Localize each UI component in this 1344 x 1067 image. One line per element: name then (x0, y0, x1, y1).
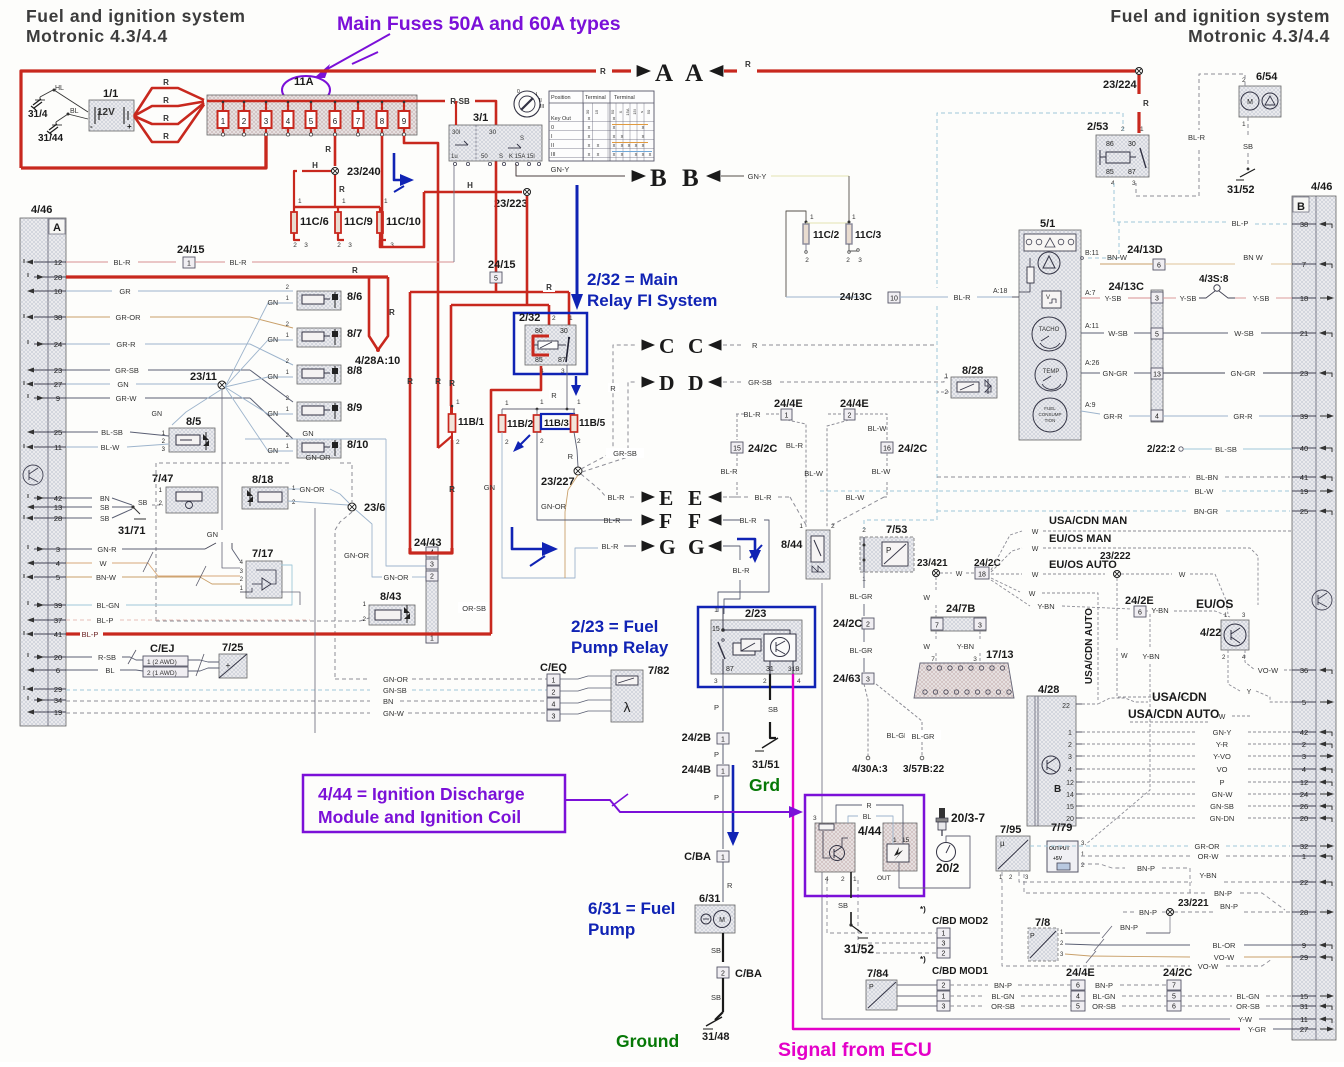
svg-text:19: 19 (1300, 487, 1308, 496)
svg-text:2/23 = Fuel: 2/23 = Fuel (571, 617, 658, 636)
wire fuse6 down to 23/240 (334, 136, 337, 166)
svg-text:20: 20 (1300, 814, 1308, 823)
pin 11 left strip (24, 443, 66, 452)
svg-text:1: 1 (552, 677, 556, 684)
svg-text:2: 2 (430, 573, 434, 580)
svg-text:BL-R: BL-R (739, 516, 757, 525)
svg-text:P: P (714, 703, 719, 712)
connector 24/4E pin1 (736, 398, 803, 420)
fuse bus bar (207, 100, 412, 103)
svg-text:1: 1 (456, 399, 460, 406)
svg-text:Ground: Ground (616, 1031, 679, 1051)
svg-text:20/2: 20/2 (936, 861, 960, 875)
wire BL-GN from pin39 (66, 565, 292, 610)
svg-text:24/13C: 24/13C (840, 292, 872, 303)
svg-text:BL-P: BL-P (97, 616, 114, 625)
svg-text:SB: SB (1243, 142, 1253, 151)
connector C/BA pin2 (717, 967, 762, 980)
svg-text:C: C (659, 334, 675, 358)
svg-text:1: 1 (298, 198, 302, 205)
svg-text:x: x (642, 125, 645, 131)
fuse 11B/1 top feed (450, 406, 452, 414)
svg-text:2: 2 (862, 527, 866, 534)
svg-text:USA/CDN AUTO: USA/CDN AUTO (1128, 707, 1219, 721)
svg-text:D: D (688, 371, 704, 395)
svg-text:1: 1 (221, 117, 226, 126)
svg-text:BL: BL (70, 108, 79, 115)
label OR-SB on red vertical (458, 602, 488, 613)
wire W from 23/222 to 4/22 (1121, 572, 1228, 614)
svg-text:GN: GN (152, 411, 163, 418)
pin 39 right strip (1292, 412, 1334, 421)
svg-text:OR-SB: OR-SB (991, 1002, 1015, 1011)
svg-text:0: 0 (517, 89, 520, 95)
switch contact inside 2/32 (566, 337, 570, 362)
wire GR-SB to 8/9 (66, 366, 293, 402)
svg-text:4/46: 4/46 (31, 204, 52, 216)
svg-text:1: 1 (577, 399, 581, 406)
wire GN from 23/11 to 8/5 (152, 389, 223, 425)
svg-text:30: 30 (560, 328, 568, 335)
svg-text:BL-R: BL-R (786, 441, 804, 450)
svg-text:2 (1 AWD): 2 (1 AWD) (147, 670, 177, 677)
svg-text:11C/9: 11C/9 (344, 216, 373, 228)
svg-text:31B: 31B (788, 666, 800, 673)
svg-text:Pump Relay: Pump Relay (571, 638, 669, 657)
svg-text:M: M (1247, 99, 1253, 106)
fuse 8 (377, 101, 388, 136)
connector 24/4E pin2 (828, 398, 887, 442)
pin 19 left strip (27, 708, 66, 717)
wire W fan down from 24/2C 18 (991, 578, 1098, 700)
svg-text:Y-VO: Y-VO (1213, 752, 1231, 761)
svg-text:BL-GR: BL-GR (912, 732, 936, 741)
wires 24/4E to 24/2C (1092, 981, 1167, 1011)
svg-text:87: 87 (1128, 169, 1136, 176)
wire W EU/OS AUTO (991, 559, 1117, 579)
pin A:9 wire GR-R (1081, 402, 1292, 421)
svg-text:22: 22 (1062, 703, 1070, 710)
svg-text:3: 3 (1155, 295, 1159, 302)
svg-text:2: 2 (552, 315, 556, 322)
svg-text:7: 7 (1172, 982, 1176, 989)
svg-text:3: 3 (56, 545, 60, 554)
svg-text:20/3-7: 20/3-7 (951, 811, 985, 825)
svg-text:R: R (163, 114, 169, 123)
spark plug 20/3-7 (936, 808, 985, 836)
svg-text:23: 23 (54, 366, 62, 375)
svg-text:BL-R: BL-R (229, 258, 247, 267)
svg-text:TEMP: TEMP (1043, 369, 1060, 375)
throttle module 7/17 (240, 548, 282, 598)
pin 5 left strip (24, 573, 66, 582)
svg-text:1: 1 (342, 198, 346, 205)
svg-text:1: 1 (1140, 126, 1144, 133)
svg-text:2: 2 (846, 257, 850, 264)
svg-text:2: 2 (540, 438, 544, 445)
svg-text:BN W: BN W (1243, 253, 1264, 262)
battery feed red fan with R labels (134, 78, 204, 142)
svg-text:H: H (467, 181, 473, 190)
svg-text:P: P (886, 546, 891, 555)
svg-text:x: x (597, 152, 600, 158)
svg-text:13: 13 (1153, 371, 1161, 378)
svg-text:W: W (1032, 572, 1039, 579)
svg-text:2: 2 (942, 982, 946, 989)
wire GR to 8/6 (66, 287, 293, 296)
svg-text:*): *) (920, 905, 926, 914)
svg-text:8/6: 8/6 (347, 291, 362, 303)
svg-text:GN: GN (484, 483, 495, 492)
switch BL to ground 31/44 (38, 108, 88, 144)
wire BL-GR dashed from 17/13 down to 3/57B:22 (876, 684, 945, 775)
svg-text:8/8: 8/8 (347, 365, 362, 377)
wire BN-W from pin5 (66, 566, 240, 586)
svg-text:2: 2 (1068, 742, 1072, 749)
component 11C/2 (803, 214, 848, 264)
svg-text:R: R (449, 485, 455, 494)
svg-text:30: 30 (489, 129, 497, 136)
red U feed of 24/43 (410, 548, 452, 553)
svg-text:GR-OR: GR-OR (116, 313, 142, 322)
pin 22 right strip (1292, 878, 1332, 887)
svg-text:GN-OR: GN-OR (383, 675, 409, 684)
connector 24/63 pin3 (833, 673, 874, 685)
svg-text:1: 1 (1068, 730, 1072, 737)
svg-text:9: 9 (1302, 941, 1306, 950)
svg-text:GN-Y: GN-Y (748, 172, 767, 181)
svg-text:42: 42 (54, 494, 62, 503)
svg-text:III: III (551, 152, 556, 158)
svg-text:BL-OR: BL-OR (1213, 941, 1237, 950)
svg-text:3: 3 (978, 622, 982, 629)
wire BL-W to 8/5 (66, 443, 169, 452)
svg-text:R: R (546, 283, 552, 292)
svg-text:BL-GN: BL-GN (1093, 992, 1116, 1001)
node 23/223 (494, 189, 531, 211)
svg-text:R: R (163, 132, 169, 141)
wire VO-W dashed row lower (1002, 872, 1272, 971)
svg-text:29: 29 (54, 685, 62, 694)
svg-text:G: G (659, 535, 676, 559)
svg-text:B: B (1297, 201, 1305, 213)
svg-text:11: 11 (54, 443, 62, 452)
svg-text:A:18: A:18 (993, 288, 1008, 295)
wire BN-P from 7/8 pin1 (1065, 923, 1170, 938)
fuse 5 (306, 101, 317, 136)
svg-text:P: P (714, 793, 719, 802)
blue arrow top near fuse box (394, 153, 414, 192)
svg-text:R-SB: R-SB (98, 653, 116, 662)
svg-text:W: W (1219, 714, 1226, 721)
arrow pair G (642, 535, 722, 559)
svg-text:BL-R: BL-R (953, 293, 971, 302)
svg-text:OR-W: OR-W (1198, 852, 1220, 861)
relay 8/18 (242, 474, 296, 509)
svg-text:Fuel and ignition system: Fuel and ignition system (1110, 6, 1330, 26)
wire GR-SB dashed right of D (723, 378, 949, 387)
svg-text:11B/3: 11B/3 (544, 418, 569, 429)
wire GN bus down from injectors (245, 429, 426, 566)
svg-text:Y-SB: Y-SB (1253, 294, 1270, 303)
svg-text:31/52: 31/52 (844, 942, 874, 956)
component 11C/9 with pins 1 2 3 (335, 198, 373, 249)
svg-text:6: 6 (1076, 982, 1080, 989)
ECU pin 1 wire GN-Y to pin 42 (1068, 728, 1290, 737)
svg-text:BN-P: BN-P (1139, 908, 1157, 917)
svg-text:6: 6 (1172, 1003, 1176, 1010)
svg-text:4: 4 (1302, 765, 1306, 774)
pin 28 left strip (24, 514, 66, 523)
annotation 6/31 Fuel Pump (588, 899, 675, 939)
ignition switch 3/1 (449, 112, 542, 166)
svg-text:Y-BN: Y-BN (1142, 652, 1159, 661)
wire frame bottom from battery loop (21, 134, 266, 168)
svg-text:2: 2 (721, 970, 725, 977)
svg-text:8/5: 8/5 (186, 416, 201, 428)
svg-text:24/2C: 24/2C (898, 443, 927, 455)
wire dashed from 23/227 to C and D (581, 345, 644, 472)
svg-text:GN-OR: GN-OR (541, 502, 567, 511)
svg-text:BL-R: BL-R (607, 493, 625, 502)
svg-text:12: 12 (1300, 778, 1308, 787)
wire P from 2/23 pin3 down fuel pump feed (714, 674, 723, 731)
arrow pair D (642, 371, 722, 395)
svg-text:7/82: 7/82 (648, 665, 669, 677)
svg-text:E: E (659, 486, 673, 510)
fuse 6 (330, 101, 341, 136)
svg-text:R: R (163, 96, 169, 105)
ECU pin 4 wire VO to pin 4 (1068, 765, 1290, 774)
svg-text:31/44: 31/44 (38, 133, 63, 144)
svg-text:G: G (688, 535, 705, 559)
svg-text:37: 37 (54, 616, 62, 625)
svg-text:BL-R: BL-R (113, 258, 131, 267)
connector strip 4/46 B (1292, 181, 1336, 1040)
svg-text:23/6: 23/6 (364, 502, 385, 514)
svg-text:A:9: A:9 (1085, 402, 1096, 409)
svg-text:10: 10 (54, 287, 62, 296)
ECU 4/28 part B (1027, 684, 1076, 826)
svg-text:8/7: 8/7 (347, 328, 362, 340)
svg-text:BL-R: BL-R (732, 566, 750, 575)
svg-text:λ: λ (624, 699, 631, 715)
svg-text:31/51: 31/51 (752, 759, 780, 771)
transistor symbol on left strip (23, 465, 43, 485)
svg-text:4/44: 4/44 (858, 824, 882, 838)
wire BL-P red to pin 41 (66, 630, 491, 639)
svg-text:1: 1 (721, 854, 725, 861)
svg-text:7/84: 7/84 (867, 968, 889, 980)
svg-text:BN-P: BN-P (1214, 889, 1232, 898)
node 23/11 (190, 371, 226, 389)
svg-text:II: II (551, 143, 555, 149)
svg-text:22: 22 (1300, 878, 1308, 887)
svg-text:2/53: 2/53 (1087, 121, 1108, 133)
svg-text:3: 3 (942, 940, 946, 947)
purple arrow to 4/44 (565, 794, 803, 818)
svg-text:1: 1 (944, 373, 948, 380)
svg-text:W: W (1032, 546, 1039, 553)
wire dashed from 23/227 to E (581, 474, 636, 502)
svg-text:38: 38 (1300, 220, 1308, 229)
injector 8/7 (297, 328, 362, 347)
svg-text:28: 28 (1300, 908, 1308, 917)
svg-text:24/4E: 24/4E (840, 398, 869, 410)
svg-text:SB: SB (100, 516, 110, 523)
wire OR-W row to pin 1 (1081, 852, 1290, 861)
injector 8/6 (297, 291, 362, 310)
svg-text:5: 5 (1076, 1003, 1080, 1010)
svg-text:GN: GN (302, 429, 313, 438)
svg-text:6: 6 (333, 117, 338, 126)
pin 18 right strip (1292, 294, 1334, 303)
pin 23 left strip (27, 366, 66, 375)
component 6/54 horn (1239, 71, 1281, 128)
svg-text:3: 3 (552, 713, 556, 720)
relay 8/5 (162, 416, 215, 453)
svg-text:18: 18 (978, 571, 986, 578)
pin 29 left strip (24, 685, 66, 694)
svg-text:GR: GR (119, 287, 131, 296)
svg-text:GN: GN (207, 530, 218, 539)
wire SB below pump (711, 933, 723, 962)
svg-text:1: 1 (942, 930, 946, 937)
svg-text:4/3S:8: 4/3S:8 (1199, 274, 1229, 285)
wire GR-R to 8/8 (66, 340, 293, 365)
wire W from pin4 (66, 552, 240, 576)
svg-text:SB: SB (138, 500, 148, 507)
svg-text:GN: GN (268, 300, 279, 307)
wire F from 11B/3 (537, 432, 632, 520)
wire BL-R dashed right of E (723, 493, 884, 525)
svg-text:7: 7 (356, 117, 361, 126)
svg-text:VO-W: VO-W (1258, 666, 1279, 675)
wire GR-OR to 8/7 (66, 313, 293, 328)
svg-text:C/BD MOD2: C/BD MOD2 (932, 916, 989, 927)
svg-text:4/22: 4/22 (1200, 627, 1221, 639)
svg-text:3: 3 (714, 678, 718, 685)
pin 38 right strip (1292, 220, 1332, 229)
connector C/EJ (143, 643, 188, 677)
node 23/222 (1100, 551, 1131, 578)
annotation 2/23 Fuel Pump Relay (571, 617, 669, 657)
annotation 4/44 ignition discharge text box (303, 775, 565, 832)
svg-text:x: x (613, 152, 616, 158)
svg-text:4/44 = Ignition Discharge: 4/44 = Ignition Discharge (318, 784, 525, 804)
wire BL-R to A:18 from 24/13C pin10 (786, 292, 1012, 303)
pin 12 left strip (24, 258, 66, 267)
svg-text:R: R (352, 266, 358, 275)
wire SB from 2/23 pin2 to ground 31/51 (749, 674, 780, 795)
svg-text:85: 85 (1106, 169, 1114, 176)
splice 4/3S:8 (1199, 274, 1235, 298)
wire GR-OR row to pin 32 (1030, 842, 1290, 851)
svg-text:7/53: 7/53 (886, 524, 907, 536)
svg-text:8/43: 8/43 (380, 591, 401, 603)
svg-text:K 15A 15l: K 15A 15l (509, 154, 535, 160)
fuse 2 (239, 101, 250, 136)
svg-text:S: S (520, 136, 524, 142)
svg-text:CONSUMP: CONSUMP (1038, 412, 1061, 417)
node 23/221 (1123, 898, 1290, 933)
svg-text:x: x (588, 125, 591, 131)
connector 24/2C bottom (1163, 967, 1192, 1011)
svg-text:OUTPUT: OUTPUT (1049, 846, 1070, 852)
svg-text:GN-SB: GN-SB (383, 686, 407, 695)
svg-text:C: C (688, 334, 704, 358)
pin 41 right strip (1292, 473, 1332, 482)
svg-text:1: 1 (569, 315, 573, 322)
svg-text:F: F (659, 509, 672, 533)
pin 12 right strip (1292, 778, 1332, 787)
svg-text:C/BD MOD1: C/BD MOD1 (932, 966, 989, 977)
connector 24/2E pin6 (1125, 595, 1233, 617)
pin 42 left strip (28, 494, 66, 503)
svg-text:s: s (639, 111, 644, 113)
wire BL-W 24/4E2 down to 8/44 pin2 (804, 420, 849, 527)
pin 39 left strip (28, 601, 66, 610)
wire from 8/18 pin2 (288, 501, 348, 505)
connector C/BA pin1 (684, 851, 729, 863)
svg-text:12: 12 (54, 258, 62, 267)
fuse 9 (399, 101, 410, 136)
wire from 11B/1 down to 24/43 (438, 379, 455, 548)
svg-text:8/18: 8/18 (252, 474, 273, 486)
svg-text:BL-R: BL-R (754, 493, 772, 502)
svg-text:SB: SB (768, 705, 778, 714)
diagnostic connector 17/13 (914, 649, 1014, 698)
svg-text:VO: VO (1217, 765, 1228, 774)
svg-text:7: 7 (931, 656, 935, 663)
svg-text:2: 2 (552, 689, 556, 696)
svg-text:x: x (588, 134, 591, 140)
svg-text:X: X (618, 110, 623, 113)
svg-text:x: x (621, 134, 624, 140)
wire H to 23/223 (424, 181, 522, 192)
svg-text:2: 2 (577, 438, 581, 445)
svg-text:SB: SB (100, 505, 110, 512)
svg-text:20: 20 (54, 653, 62, 662)
wire BL-GR to 24/63 (850, 629, 874, 672)
svg-text:W: W (1029, 591, 1036, 598)
annotation 2/32 Main Relay FI System (571, 185, 717, 310)
pin A:18 of 5/1 (993, 288, 1019, 297)
svg-text:1: 1 (540, 399, 544, 406)
svg-text:4/28: 4/28 (1038, 684, 1059, 696)
svg-text:24/63: 24/63 (833, 673, 861, 685)
transistor symbol on right strip (1312, 590, 1332, 610)
svg-text:GN: GN (117, 380, 128, 389)
connector 24/4B pin1 (682, 764, 729, 776)
svg-text:GR-R: GR-R (116, 340, 136, 349)
svg-text:50: 50 (646, 109, 651, 114)
svg-text:27: 27 (54, 380, 62, 389)
wire BL-R solid right of F (718, 516, 769, 612)
wire BL-W dashed to pin19 (820, 487, 1290, 496)
svg-text:BL-GR: BL-GR (850, 646, 874, 655)
relay 2/32 blue highlight box (514, 313, 587, 374)
svg-text:Motronic 4.3/4.4: Motronic 4.3/4.4 (26, 26, 168, 46)
arrow pair B (632, 165, 721, 192)
svg-text:4: 4 (286, 117, 291, 126)
svg-text:BL: BL (105, 666, 114, 675)
pin B:11 of 5/1 (1081, 250, 1099, 259)
svg-text:W: W (99, 559, 107, 568)
svg-text:8/10: 8/10 (347, 439, 368, 451)
node 23/240 (332, 166, 381, 178)
svg-text:P: P (869, 984, 874, 991)
